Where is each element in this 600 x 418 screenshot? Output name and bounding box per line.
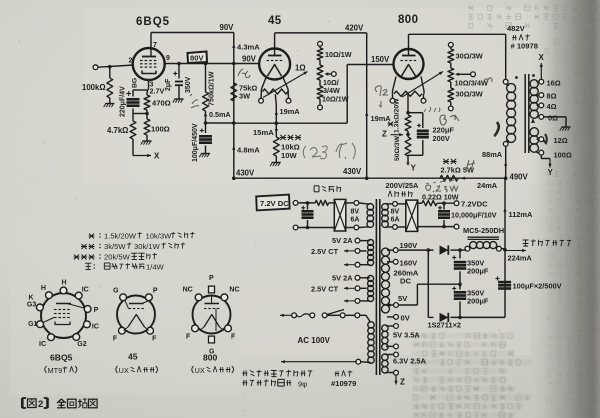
wire junction to divider	[206, 122, 235, 124]
wires bridge to winding left	[346, 202, 354, 204]
svg-text:4.3mA: 4.3mA	[237, 43, 260, 52]
svg-text:800: 800	[398, 14, 418, 26]
svg-text:8V: 8V	[391, 209, 400, 216]
socket 800 pin NC	[195, 294, 202, 301]
arrow tap second	[344, 300, 355, 302]
svg-text:7.2V DC: 7.2V DC	[260, 199, 289, 208]
wire doubler vertical	[427, 250, 429, 317]
svg-text:88mA: 88mA	[482, 150, 503, 159]
socket 6BQ5 pin IC	[48, 334, 55, 341]
pencil blob near OPT primary	[494, 122, 499, 136]
svg-text:1/4W: 1/4W	[146, 263, 165, 272]
T2 HV winding right	[382, 248, 390, 256]
terminal 7.2VDC right top	[454, 201, 459, 206]
svg-text:G1: G1	[28, 321, 37, 328]
svg-text:F: F	[152, 336, 157, 343]
capacitor 100uFx2/500V on rail	[496, 278, 500, 280]
resistor 1.3k/20W	[405, 115, 411, 131]
svg-text:30Ω/3W: 30Ω/3W	[456, 90, 483, 99]
long arrow from 45 pot to 1 ohm chain	[263, 72, 308, 98]
svg-text:0V: 0V	[401, 313, 411, 322]
tube V2 grid	[267, 60, 270, 62]
ground for 100k	[105, 103, 114, 105]
socket 6BQ5 pin G1	[37, 321, 44, 328]
page gutter shading right edge	[528, 0, 600, 418]
svg-text:6A: 6A	[391, 217, 400, 224]
svg-text:430V: 430V	[343, 167, 362, 176]
T2 primary winding	[368, 322, 374, 328]
socket 45 pin F	[119, 327, 126, 334]
socket 45 pin F	[147, 327, 154, 334]
socket 6BQ5 envelope	[41, 293, 86, 338]
socket 6BQ5 pin IC	[84, 321, 91, 328]
svg-text:200V: 200V	[433, 134, 450, 143]
svg-text:350V: 350V	[185, 76, 192, 93]
800 filament pins	[393, 77, 397, 92]
svg-text:1Ω: 1Ω	[295, 64, 306, 73]
svg-text:5V 2A: 5V 2A	[332, 236, 353, 245]
wire cathode row	[234, 122, 276, 124]
resistor 50 ohm/3W	[405, 137, 411, 156]
svg-text:10Ω/3/4W: 10Ω/3/4W	[455, 79, 488, 88]
label three stars	[280, 135, 285, 140]
label star 1.3k	[388, 122, 393, 127]
resistor 2.7k/5W on rail	[440, 175, 458, 181]
svg-text:Y: Y	[548, 168, 554, 177]
resistor 100k ohm grid	[109, 67, 111, 78]
svg-text:X: X	[154, 152, 160, 161]
tap 5V	[388, 304, 391, 307]
svg-text:470Ω: 470Ω	[152, 99, 171, 108]
tube V1 plate	[142, 56, 156, 58]
wiper terminal 1 ohm	[331, 72, 336, 77]
svg-text:AC 100V: AC 100V	[298, 336, 331, 345]
svg-text:H: H	[62, 280, 67, 287]
svg-text:482V: 482V	[507, 24, 526, 33]
arrow 4.3mA	[232, 44, 235, 48]
socket 800 pin F	[225, 325, 232, 332]
svg-text:5V 2A: 5V 2A	[332, 274, 353, 283]
svg-text:NC: NC	[229, 286, 239, 293]
resistor smoothing left	[315, 200, 328, 205]
arrow 0.5mA	[204, 113, 207, 117]
note line 3	[74, 255, 79, 260]
svg-text:BG: BG	[132, 78, 139, 88]
svg-text:G: G	[113, 287, 119, 294]
diode D2 1S2711	[440, 313, 449, 322]
svg-text:DC: DC	[400, 277, 411, 286]
tube V3 filament	[402, 65, 416, 77]
long arrow 800 pot to 30 ohm chain	[402, 72, 443, 98]
svg-text:NC: NC	[183, 286, 193, 293]
resistor 4.7k feedback	[132, 114, 134, 122]
terminal 7.2V top left	[293, 201, 298, 206]
wire 800 cathode tap	[407, 94, 409, 113]
tube V2 filament	[268, 65, 282, 77]
socket 800 pin G	[209, 336, 215, 343]
socket 6BQ5 pin G3	[37, 304, 44, 311]
socket 6BQ5 pin P	[84, 306, 91, 313]
socket 800 caption UX socket	[192, 366, 194, 373]
resistor 750k/1W	[205, 64, 207, 93]
svg-text:Y: Y	[411, 164, 417, 173]
svg-text:#10979: #10979	[331, 379, 356, 388]
pencil mark near 750k	[190, 94, 199, 108]
svg-text:IC: IC	[39, 341, 46, 348]
svg-text:F: F	[113, 336, 118, 343]
svg-text:5V 3.5A: 5V 3.5A	[393, 331, 420, 340]
socket 6BQ5 caption MT9pin	[45, 366, 47, 373]
svg-text:100μF/450V: 100μF/450V	[192, 123, 199, 162]
wire doubler bottom to diode 2	[428, 316, 433, 318]
svg-text:5V: 5V	[398, 294, 408, 303]
svg-text:30k/1W: 30k/1W	[134, 242, 161, 251]
pencil strokes near 2.7k	[466, 160, 475, 170]
svg-text:G3: G3	[27, 301, 36, 308]
socket 6BQ5 pin IC	[75, 292, 82, 299]
wire screen to right	[165, 63, 234, 65]
socket 800 envelope	[193, 296, 231, 334]
resistor 100 ohm cathode	[144, 119, 150, 135]
svg-text:K: K	[29, 295, 34, 302]
T2 winding 8V 6A left	[367, 204, 374, 211]
ground for 100uF	[201, 153, 210, 155]
pencil n mark	[484, 78, 492, 82]
socket 45 pin P	[146, 294, 153, 301]
svg-text:2.7kΩ 5W: 2.7kΩ 5W	[441, 166, 474, 175]
wire cathode down	[148, 80, 150, 89]
svg-text:16Ω: 16Ω	[547, 78, 561, 87]
tube V1 cathode	[142, 71, 156, 74]
svg-text:10Ω/1W: 10Ω/1W	[325, 50, 352, 59]
svg-text:Z: Z	[400, 378, 405, 387]
svg-text:P: P	[153, 287, 158, 294]
svg-text:90V: 90V	[220, 23, 235, 32]
svg-text:80V: 80V	[190, 54, 204, 63]
svg-text:800: 800	[203, 353, 218, 363]
wire B+ rail 430V-490V	[234, 177, 506, 179]
svg-text:IC: IC	[82, 287, 89, 294]
svg-text:2.5V CT: 2.5V CT	[311, 247, 339, 256]
svg-text:UX: UX	[195, 366, 205, 375]
wire to bridge left	[298, 202, 315, 204]
tap 160V	[387, 261, 393, 263]
output transformer secondary lower	[530, 128, 539, 137]
socket 45 caption UX socket	[116, 366, 118, 373]
arrow Y from 100 ohm	[540, 155, 542, 159]
arrow tap first	[344, 264, 355, 266]
arrow X from 16 ohm	[540, 63, 542, 79]
arrow 19mA right column	[365, 112, 368, 116]
pencil mark q2 800	[375, 86, 388, 107]
tube V3 plate	[402, 55, 416, 57]
label two stars 2.7k	[443, 159, 448, 164]
socket 45 internal element	[129, 303, 144, 305]
output transformer core	[524, 74, 526, 153]
arrow 24mA on rail	[461, 177, 465, 180]
svg-text:F: F	[231, 333, 236, 340]
tube V3 grid	[401, 60, 404, 62]
tube V2 plate	[268, 55, 282, 57]
output transformer secondary upper	[530, 80, 538, 88]
capacitor 220uF/4V cathode bypass	[133, 89, 147, 91]
wire main divider column	[233, 33, 235, 179]
socket 800 pin NC	[221, 294, 228, 301]
label same as right kana	[314, 185, 319, 187]
svg-text:20k/5W: 20k/5W	[104, 253, 131, 262]
svg-text:IC: IC	[92, 323, 99, 330]
svg-text:30Ω/3W: 30Ω/3W	[456, 52, 483, 61]
T2 winding 8V 6A right	[382, 204, 389, 211]
capacitor 100uF/450V	[205, 123, 207, 133]
wire 45 plate to 420V	[274, 33, 276, 48]
svg-text:P: P	[94, 307, 99, 314]
terminal 7.2VDC right bottom	[454, 224, 459, 229]
wire 190V to diode	[398, 249, 433, 251]
svg-text:160V: 160V	[400, 258, 419, 267]
svg-text:100kΩ: 100kΩ	[82, 83, 106, 92]
wire 45 cathode center tap	[275, 94, 276, 105]
svg-text:MT9: MT9	[48, 366, 63, 375]
svg-text:50Ω/3W: 50Ω/3W	[394, 135, 401, 161]
primary bottom terminal and long arrow	[356, 359, 361, 364]
45 filament pins	[262, 78, 267, 90]
pencil note 225f	[303, 143, 355, 159]
boxed label 80V	[188, 52, 208, 64]
tube V3 800 envelope	[394, 49, 424, 79]
svg-text:2.7V: 2.7V	[150, 87, 165, 96]
svg-text:1.5k/20W: 1.5k/20W	[104, 232, 137, 241]
svg-text:G2: G2	[77, 341, 86, 348]
svg-text:9: 9	[166, 55, 170, 62]
svg-text:10,000μF/10V: 10,000μF/10V	[451, 211, 497, 220]
diode D1 1S2711	[440, 245, 449, 254]
svg-text:1.3kΩ/20W: 1.3kΩ/20W	[394, 98, 401, 133]
svg-text:8Ω: 8Ω	[547, 92, 557, 101]
pencil 1240 and BG	[424, 107, 440, 112]
wire grid 45	[234, 63, 259, 65]
svg-text:UX: UX	[119, 366, 129, 375]
arrow 112mA	[503, 208, 506, 212]
potentiometer hum balance 800	[394, 91, 422, 96]
svg-text:100μF×2/500V: 100μF×2/500V	[513, 282, 562, 291]
svg-text:12Ω: 12Ω	[554, 136, 568, 145]
grid chain 30 ohm resistors 800	[448, 42, 453, 47]
wire OPT primary bottom to 490V rail	[505, 146, 507, 178]
svg-text:112mA: 112mA	[509, 210, 533, 219]
hum pot chain 10ohm resistors 45	[318, 41, 323, 46]
svg-text:200μF: 200μF	[467, 297, 489, 306]
svg-text:2μF: 2μF	[165, 78, 172, 91]
svg-text:45: 45	[128, 352, 138, 362]
svg-text:2.5V CT: 2.5V CT	[311, 285, 339, 294]
svg-text:224mA: 224mA	[508, 254, 533, 263]
svg-text:3W: 3W	[239, 92, 250, 101]
svg-text:7: 7	[153, 42, 157, 49]
ground 0 ohm tap	[544, 116, 566, 118]
capacitor 350V 200uF second	[452, 288, 456, 290]
output transformer T1 primary	[503, 79, 508, 84]
label other channel katakana	[523, 239, 529, 241]
arrow 4.8mA	[232, 146, 235, 150]
socket 45 envelope	[117, 296, 155, 334]
note line 2	[82, 244, 87, 249]
power transformer T2 core	[375, 199, 377, 375]
svg-text:6BQ5: 6BQ5	[50, 353, 73, 363]
svg-text:2: 2	[38, 399, 43, 410]
svg-text:19mA: 19mA	[280, 107, 301, 116]
note line 1	[89, 234, 94, 239]
svg-text:100Ω: 100Ω	[151, 125, 170, 134]
tube V2 45 envelope	[259, 49, 290, 80]
svg-text:10Ω/1W: 10Ω/1W	[322, 95, 349, 104]
tube V1 6BQ5 envelope	[133, 48, 165, 80]
svg-text:H: H	[41, 285, 46, 292]
wiper terminal 30 ohm chain	[471, 72, 476, 77]
svg-text:4.7kΩ: 4.7kΩ	[107, 126, 128, 135]
socket 6BQ5 pin H	[60, 287, 67, 294]
arrow 19mA cathode	[275, 113, 278, 117]
svg-text:6.3V 2.5A: 6.3V 2.5A	[393, 357, 427, 366]
T2 winding 6.3V 2.5A	[382, 354, 388, 360]
pencil mark 46 near col A	[238, 69, 250, 78]
socket 6BQ5 pin H	[46, 292, 53, 299]
wire bottom left	[298, 227, 334, 229]
socket 800 pin P	[209, 286, 215, 293]
svg-text:0Ω: 0Ω	[548, 114, 558, 123]
T2 winding 5V 2A first	[368, 240, 374, 246]
arrow 88mA	[504, 162, 507, 166]
ground for 100 ohm	[143, 140, 152, 142]
svg-text:750kΩ/1W: 750kΩ/1W	[207, 71, 216, 106]
svg-text:3k/5W: 3k/5W	[104, 242, 126, 251]
tap 190V	[387, 249, 393, 251]
ground for 10k 10W	[272, 162, 281, 164]
svg-text:MC5-250DH: MC5-250DH	[463, 226, 504, 235]
svg-text:6BQ5: 6BQ5	[136, 16, 170, 28]
tap 0V	[387, 316, 394, 318]
svg-text:190V: 190V	[400, 241, 419, 250]
pencil 0.2 ohm on 0.22 label	[426, 180, 454, 184]
svg-text:90V: 90V	[242, 55, 257, 64]
caption plate and grid caps	[242, 372, 247, 374]
svg-text:9φ: 9φ	[298, 380, 307, 389]
svg-text:200V/25A: 200V/25A	[386, 181, 420, 190]
figure caption zu2	[21, 398, 24, 408]
svg-text:420V: 420V	[345, 24, 364, 33]
label Tango 2 katakana	[335, 373, 340, 375]
capacitor 350V 200uF first	[459, 250, 461, 258]
svg-text:45: 45	[268, 15, 282, 27]
wire to X with arrow	[133, 155, 151, 157]
svg-text:X: X	[539, 53, 545, 62]
socket 6BQ5 pin G2	[73, 334, 80, 341]
svg-text:F: F	[186, 333, 191, 340]
svg-text:P: P	[209, 275, 214, 282]
faint print right column upper	[544, 39, 569, 177]
input terminal J1	[93, 65, 98, 70]
socket 800 internal element	[205, 303, 220, 305]
T2 winding 5V 3.5A	[382, 325, 388, 331]
tube V1 grids	[140, 60, 143, 62]
terminal 7.2V bottom left	[293, 225, 298, 230]
arrow to other channel	[505, 250, 526, 252]
wire 5V tap to cap midpoint	[399, 304, 418, 306]
socket 6BQ5 internal element	[56, 303, 71, 305]
svg-text:8V: 8V	[351, 209, 360, 216]
blurred print in right gutter	[546, 8, 599, 414]
svg-text:0.5mA: 0.5mA	[209, 110, 231, 119]
capacitor smoothing left	[301, 207, 305, 209]
wire right rail vertical	[504, 178, 506, 317]
capacitor 10000uF/10V	[443, 203, 445, 209]
AC switch and fuse line	[355, 313, 360, 318]
socket 45 pin G	[120, 294, 127, 301]
faint print top right corner	[468, 5, 596, 29]
wire 420V down to 430V rail	[366, 33, 368, 178]
resistor 0.22ohm 10W	[418, 202, 422, 204]
svg-text:4.8mA: 4.8mA	[237, 146, 260, 155]
resistor 10k/10W bias	[275, 123, 277, 137]
svg-text:0.22Ω 10W: 0.22Ω 10W	[422, 193, 459, 202]
svg-text:430V: 430V	[236, 169, 255, 178]
svg-text:10k/3W: 10k/3W	[146, 232, 173, 241]
pencil 0.2ohm 2W over 0.22	[426, 185, 458, 192]
svg-text:# 10978: # 10978	[511, 42, 538, 51]
ground for 2uF	[175, 98, 184, 100]
svg-text:220μF/4V: 220μF/4V	[120, 86, 127, 117]
wire input to grid	[98, 65, 134, 67]
boxed label 7.2V DC left	[256, 195, 289, 211]
svg-text:24mA: 24mA	[477, 181, 498, 190]
arrow Z bottom	[395, 375, 397, 384]
capacitor 2uF/350V screen	[178, 64, 180, 79]
label Tango katakana	[512, 37, 517, 39]
bridge rectifier left	[334, 199, 346, 231]
arrow 15mA	[275, 129, 278, 133]
arrow down Y	[406, 162, 409, 166]
wire 800 plate top to OPT	[408, 34, 410, 49]
svg-text:10W: 10W	[281, 151, 297, 160]
svg-text:6A: 6A	[351, 217, 360, 224]
paper speckles	[100, 286, 102, 288]
svg-text:Z: Z	[382, 130, 387, 139]
svg-text:100Ω: 100Ω	[554, 151, 572, 160]
svg-text:4Ω: 4Ω	[547, 102, 557, 111]
svg-text:1S2711×2: 1S2711×2	[428, 321, 462, 330]
svg-text:7.2VDC: 7.2VDC	[461, 200, 488, 209]
wire plate to 90V rail	[150, 33, 152, 49]
svg-text:15mA: 15mA	[253, 128, 274, 137]
svg-text:200μF: 200μF	[467, 267, 489, 276]
T2 winding 5V 2A second	[368, 276, 374, 282]
junction with choke output	[503, 248, 507, 252]
resistor 470 ohm cathode	[146, 92, 148, 95]
capacitor 220uF/200V	[408, 112, 423, 114]
blurred print bottom right block	[412, 333, 532, 418]
resistor 75k/3W	[231, 83, 237, 101]
svg-text:150V: 150V	[371, 55, 390, 64]
pencil blob near OPT secondary	[531, 118, 535, 123]
potentiometer hum balance 45	[263, 89, 289, 94]
bridge rectifier right	[397, 203, 405, 205]
note line 4	[85, 262, 92, 264]
svg-text:490V: 490V	[510, 173, 529, 182]
socket 800 pin F	[192, 325, 199, 332]
